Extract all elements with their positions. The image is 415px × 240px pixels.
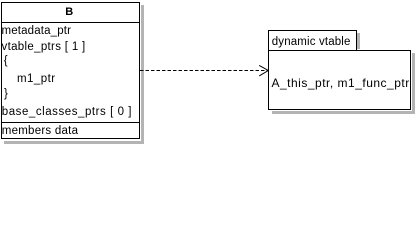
label dynamic vtable (272, 36, 351, 49)
header separator line of box B (2, 22, 140, 23)
note tab box shadow (357, 33, 360, 49)
note tab box (dynamic vtable) (268, 30, 357, 51)
row base_classes_ptrs [ 0 ] (2, 106, 132, 119)
row metadata_ptr (2, 25, 72, 38)
row m1_ptr (17, 73, 56, 86)
class box B (1, 2, 140, 139)
wire dashed line (140, 70, 268, 72)
header label B (1, 2, 138, 22)
row members data (2, 125, 79, 138)
vtable body box shadow (412, 53, 415, 113)
class box B shadow (141, 5, 144, 143)
open arrowhead (259, 65, 268, 76)
separator line above members data (2, 122, 140, 123)
row open brace (4, 55, 8, 68)
vtable body box (268, 50, 411, 110)
row close brace (4, 88, 8, 101)
label A_this_ptr, m1_func_ptr (272, 77, 410, 90)
row vtable_ptrs [ 1 ] (2, 41, 86, 54)
dashed arrow from B to dynamic vtable (0, 0, 415, 145)
